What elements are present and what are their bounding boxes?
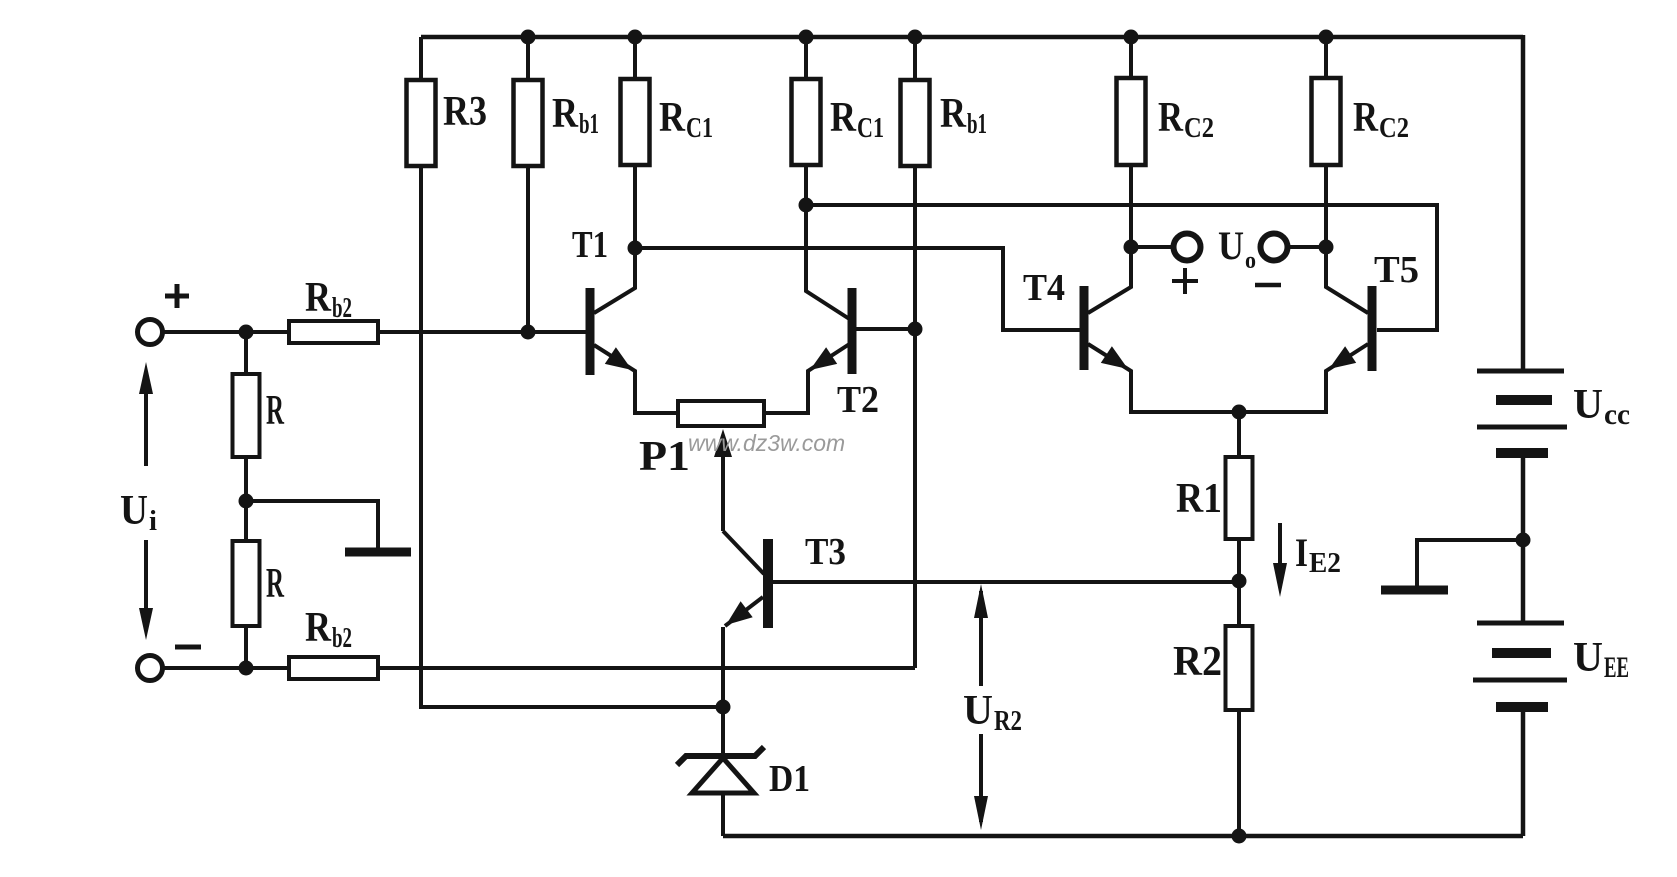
svg-text:T2: T2: [837, 379, 879, 421]
node T2 collector / RC1-right: [799, 198, 814, 213]
transistor T2: [764, 205, 879, 421]
svg-text:R2: R2: [1173, 639, 1222, 685]
svg-text:U: U: [1573, 382, 1603, 428]
wire R1 to R2: [1237, 539, 1241, 626]
wire Rb1-right down to lower input line: [913, 166, 917, 668]
node T5 collector / RC2-right: [1319, 240, 1334, 255]
svg-text:R: R: [552, 91, 579, 137]
minus sign at input: [175, 645, 201, 650]
label UR2: [963, 688, 1022, 737]
wire Rb2 lower to T2 base line: [378, 666, 915, 670]
label Uo: [1218, 223, 1256, 274]
wire RC1-right to T2 collector node: [804, 165, 808, 205]
svg-text:R: R: [1353, 95, 1379, 141]
svg-text:b1: b1: [579, 108, 599, 140]
resistor R2: [1173, 626, 1253, 710]
resistor R (upper): [233, 374, 285, 457]
svg-text:cc: cc: [1604, 398, 1630, 431]
wire T2 collector to T5 base: [806, 205, 1437, 330]
svg-text:o: o: [1245, 248, 1256, 274]
node rail junction at Rb1-right: [908, 30, 923, 45]
node rail junction at RC2-left: [1124, 30, 1139, 45]
wire R2 to bottom rail: [1237, 710, 1241, 836]
wire midpoint to ground: [1417, 540, 1523, 586]
input terminal minus: [138, 656, 163, 681]
svg-text:C1: C1: [686, 112, 713, 144]
svg-text:E2: E2: [1309, 548, 1341, 579]
node input plus / divider junction: [239, 325, 254, 340]
wire T5 collector to output minus: [1288, 245, 1326, 249]
minus sign at output: [1255, 283, 1281, 288]
potentiometer P1: [639, 401, 764, 531]
resistor R1: [1176, 457, 1253, 539]
svg-text:C2: C2: [1184, 112, 1214, 144]
wire plus terminal to Rb2: [163, 330, 289, 334]
resistor Rb2 (lower): [289, 605, 378, 679]
output terminal plus: [1174, 234, 1201, 261]
svg-text:U: U: [120, 488, 148, 534]
node rail junction at RC1-left: [628, 30, 643, 45]
wire T2 base: [856, 327, 915, 331]
node T2 base / Rb1-right junction: [908, 322, 923, 337]
svg-text:EE: EE: [1604, 651, 1629, 684]
wire top supply rail: [421, 35, 1523, 40]
resistor Rb1 (right): [901, 37, 988, 166]
label Ui: [120, 488, 157, 537]
plus sign at input: [165, 284, 189, 308]
svg-text:C1: C1: [857, 112, 884, 144]
node input minus / divider junction: [239, 661, 254, 676]
svg-text:R1: R1: [1176, 476, 1222, 522]
wire divider top segment: [244, 332, 248, 374]
wire divider middle segment: [244, 457, 248, 541]
wire Rb1-left to T1 base: [526, 166, 530, 332]
wire R3 bottom to D1 node: [421, 166, 723, 707]
svg-text:R: R: [305, 275, 332, 321]
svg-text:T1: T1: [572, 224, 608, 266]
svg-text:T4: T4: [1023, 267, 1065, 309]
svg-text:U: U: [1218, 223, 1244, 268]
svg-text:C2: C2: [1379, 112, 1409, 144]
resistor RC1 (left): [621, 37, 714, 165]
output terminal minus: [1261, 234, 1288, 261]
resistor R3: [407, 37, 488, 166]
transistor T4: [1023, 247, 1239, 412]
resistor Rb2 (upper): [289, 275, 378, 343]
wire divider bottom segment: [244, 626, 248, 668]
arrow Ui upper: [139, 362, 153, 466]
battery UEE: [1473, 623, 1629, 707]
svg-text:U: U: [1573, 635, 1603, 681]
resistor Rb1 (left): [514, 37, 600, 166]
svg-text:P1: P1: [639, 434, 690, 480]
wire RC1-left to T1 collector node: [633, 165, 637, 248]
transistor T1: [572, 224, 678, 413]
svg-text:R: R: [940, 91, 967, 137]
wire divider midpoint to ground: [246, 501, 378, 548]
svg-text:R: R: [659, 95, 686, 141]
wire minus terminal to Rb2 lower: [163, 666, 289, 670]
wire bottom rail: [723, 834, 1523, 839]
svg-text:U: U: [963, 688, 993, 734]
wire RC2-left to T4 collector node: [1129, 165, 1133, 247]
resistor RC2 (right): [1312, 37, 1410, 165]
transistor T3: [723, 531, 846, 707]
input terminal plus: [138, 320, 163, 345]
svg-text:T5: T5: [1374, 249, 1419, 291]
svg-text:R2: R2: [994, 705, 1022, 737]
wire Ucc positive drop: [1521, 35, 1526, 371]
svg-text:R3: R3: [443, 89, 487, 135]
diode D1 zener: [677, 707, 810, 836]
svg-text:R: R: [266, 561, 284, 607]
node T3 emitter / D1 / R3: [716, 700, 731, 715]
wire UEE to bottom rail: [1521, 707, 1526, 836]
wire Rb2 upper to T1 base: [378, 330, 586, 334]
svg-text:R: R: [1158, 95, 1184, 141]
arrow Ui lower: [139, 540, 153, 640]
ground at divider midpoint: [345, 548, 411, 557]
resistor RC2 (left): [1117, 37, 1215, 165]
wire T4 collector to output plus: [1131, 245, 1174, 249]
node rail junction at Rb1-left: [521, 30, 536, 45]
svg-text:R: R: [305, 605, 332, 651]
svg-text:i: i: [149, 505, 157, 537]
svg-text:R: R: [830, 95, 857, 141]
label IE2: [1295, 530, 1341, 579]
wire RC2-right to T5 collector node: [1324, 165, 1328, 247]
svg-text:I: I: [1295, 530, 1308, 575]
wire Ucc to UEE: [1521, 453, 1526, 623]
svg-text:www.dz3w.com: www.dz3w.com: [688, 430, 845, 456]
node divider midpoint: [239, 494, 254, 509]
node R2 bottom rail junction: [1232, 829, 1247, 844]
svg-text:b2: b2: [332, 622, 352, 654]
svg-text:b2: b2: [332, 292, 352, 324]
plus sign at output: [1172, 268, 1198, 294]
node T1 collector / RC1-left: [628, 241, 643, 256]
node supply midpoint: [1516, 533, 1531, 548]
watermark: [688, 430, 845, 456]
node R1-R2 / T3 base junction: [1232, 574, 1247, 589]
ground at supply midpoint: [1381, 586, 1448, 595]
svg-text:D1: D1: [769, 758, 810, 800]
node rail junction at RC2-right: [1319, 30, 1334, 45]
resistor R (lower): [233, 541, 285, 626]
arrow IE2: [1273, 523, 1287, 597]
wire T1 collector to T4 base: [635, 248, 1080, 330]
wire T3 base to R1-R2 junction: [773, 580, 1239, 584]
svg-text:b1: b1: [967, 108, 987, 140]
node Rb1-left / T1 base junction: [521, 325, 536, 340]
arrow UR2 lower: [974, 734, 988, 830]
svg-text:T3: T3: [805, 531, 846, 573]
wire emitter junction to R1: [1237, 412, 1241, 457]
transistor T5: [1239, 247, 1419, 412]
node rail junction at RC1-right: [799, 30, 814, 45]
node T4 collector / RC2-left: [1124, 240, 1139, 255]
resistor RC1 (right): [792, 37, 885, 165]
node T4-T5 emitter junction: [1232, 405, 1247, 420]
svg-text:R: R: [266, 388, 284, 434]
battery Ucc: [1477, 371, 1630, 453]
arrow UR2 upper: [974, 584, 988, 686]
